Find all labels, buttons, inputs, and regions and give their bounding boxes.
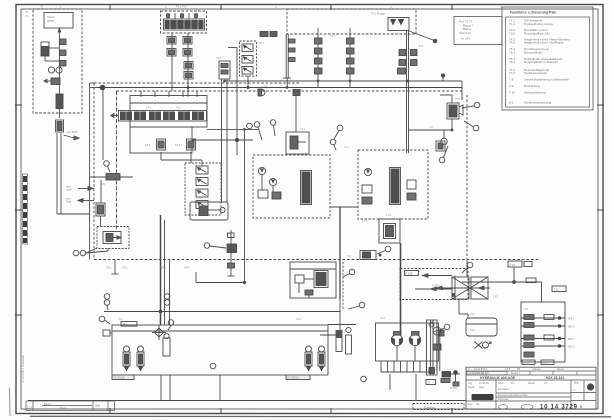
wire: cartridge box feed: [228, 48, 249, 89]
svg-text:74.5: 74.5: [100, 183, 105, 186]
svg-text:73.2: 73.2: [470, 313, 475, 316]
cylinder pair A2: [137, 346, 144, 371]
legend box top right: [502, 7, 593, 110]
bottom left strip text: [27, 403, 100, 410]
svg-text:Gez: Gez: [468, 403, 473, 406]
balloon ur2: [464, 121, 479, 131]
tag box right1: [508, 261, 532, 267]
wire: x467 foot: [466, 258, 468, 277]
svg-text:71.3: 71.3: [362, 220, 367, 223]
svg-text:71.2: 71.2: [509, 22, 515, 26]
pump1 cartridge dark: [301, 171, 312, 205]
wire: manifold right drop: [187, 33, 189, 97]
wire: bus y81: [224, 80, 462, 82]
wire: drop x462: [461, 81, 463, 100]
svg-text:10 14 3729 0 Schaltplan: 10 14 3729 0 Schaltplan: [21, 354, 25, 383]
arrow line r1: [422, 274, 452, 278]
svg-text:70: 70: [40, 5, 44, 9]
inlet arrow label 2: [66, 198, 94, 204]
manifold inner frame: [130, 127, 192, 153]
stacked valve s2: [196, 178, 208, 186]
oil tank box: [376, 323, 439, 361]
arrow line r2: [415, 284, 452, 291]
svg-text:1504: 1504: [184, 267, 190, 270]
manifold risers: [141, 91, 197, 97]
svg-text:74.2: 74.2: [509, 41, 515, 45]
control unit box in enclosure 71: [44, 13, 73, 29]
long dashed bus y259.5: [94, 259, 540, 261]
title block small field texts: [468, 382, 579, 407]
wire: x115 stub below bus: [112, 260, 119, 275]
balloon b-i: [104, 161, 110, 172]
svg-text:Masst: Masst: [528, 382, 535, 385]
wire: pair down-left from enclosure 71: [57, 133, 61, 214]
fitting blocks on drop: [60, 39, 67, 66]
svg-text:1:1: 1:1: [544, 382, 548, 385]
svg-text:74.2: 74.2: [176, 107, 181, 110]
wire: cross line y177: [90, 174, 133, 181]
page edge shadow corner: [9, 388, 12, 416]
solenoid coil c3: [184, 72, 193, 80]
svg-text:Stand 04: Stand 04: [459, 31, 471, 35]
dashed sub-box stacked valves: [185, 163, 221, 215]
svg-text:Bearb: Bearb: [468, 386, 475, 389]
svg-text:Nr 143: Nr 143: [461, 37, 470, 41]
accumulator in bank: [163, 333, 170, 356]
svg-text:71.9: 71.9: [262, 85, 267, 88]
wire: x296 pilot feed: [295, 96, 297, 133]
balloon tank top: [433, 324, 450, 332]
svg-text:Blatt: Blatt: [95, 405, 100, 408]
svg-text:Mayr: Mayr: [479, 386, 485, 389]
filter below enclosure 71: [56, 120, 64, 132]
distributor block right: [521, 302, 565, 362]
svg-text:77.2: 77.2: [509, 71, 515, 75]
PT box small parts: [295, 275, 314, 298]
tank pump motor 2: [409, 332, 420, 362]
tag box r1: [405, 271, 419, 276]
relief valve cluster upper right: [447, 103, 463, 119]
wire: x237 drop to pump box1: [235, 48, 238, 156]
wire: bank top extension: [328, 324, 356, 326]
svg-text:7.8: 7.8: [429, 126, 433, 129]
svg-text:76.1: 76.1: [118, 318, 123, 321]
svg-text:75.5: 75.5: [455, 98, 460, 101]
gauge under y130: [441, 130, 447, 145]
dashed enclosure 71 top-left: [33, 9, 82, 113]
title block row3 bold: [480, 376, 564, 380]
gauge cluster tag: [450, 386, 457, 390]
svg-text:7.9: 7.9: [509, 84, 514, 88]
balloon bank left2: [99, 316, 110, 324]
bank left port label strip: [112, 375, 134, 380]
tank pump motor 1: [391, 332, 402, 362]
company logo block: [472, 394, 494, 400]
balloon above pump box2 b: [330, 139, 336, 150]
svg-text:20 6: 20 6: [543, 361, 549, 365]
svg-text:74.4: 74.4: [175, 143, 181, 147]
wire: x343 drop: [342, 262, 344, 310]
wire: left control chain x103: [86, 88, 108, 253]
pump2 cartridge dark: [390, 168, 401, 205]
filter tag text: [493, 295, 499, 299]
distributor rows: [521, 315, 565, 358]
svg-text:75.3: 75.3: [196, 197, 201, 200]
svg-text:7.8: 7.8: [509, 78, 514, 82]
wire: pt drop x340 foot: [320, 299, 340, 335]
svg-text:7.1: 7.1: [25, 15, 29, 18]
label blocks left of enclosure 72: [260, 32, 277, 37]
valve on dashed bus: [360, 251, 381, 260]
manifold top labels: [176, 5, 187, 9]
svg-text:Blatt: Blatt: [574, 382, 579, 385]
wire: left feed column x89.6: [89, 83, 91, 260]
svg-text:Name: Name: [60, 407, 67, 410]
rounded pilot box: [190, 202, 228, 220]
cylinder pair B1: [305, 346, 312, 371]
component column x287: [283, 34, 295, 88]
ladder column x318: [315, 28, 323, 88]
dashed enclosure inner: [117, 91, 463, 230]
svg-text:74.1 74.2: 74.1 74.2: [176, 5, 187, 9]
solenoid valve 71a: [41, 42, 59, 61]
port tag left bank: [103, 330, 112, 336]
wire: manifold to stack: [161, 152, 202, 166]
balloon bank bottom1: [210, 363, 216, 369]
main valve spool row outline: [111, 111, 207, 122]
wire: bus y87.5: [96, 85, 462, 90]
dashed tag text: [424, 405, 436, 409]
breather tank rounded: [466, 318, 497, 336]
solenoid coil a2: [183, 37, 192, 45]
balloon pair above pump box2: [334, 125, 343, 139]
junction diamond: [152, 325, 166, 340]
cylinder pair A1: [123, 346, 130, 371]
pump2 small parts: [362, 180, 416, 204]
bank inner top line: [112, 330, 328, 332]
svg-text:Senkbremsventil: Senkbremsventil: [524, 71, 547, 75]
title block stamp ovals: [499, 405, 534, 409]
port tag texts under bus: [106, 267, 190, 270]
svg-text:206 1: 206 1: [568, 317, 575, 321]
wire: heavy suction line x400: [400, 243, 402, 334]
svg-text:Steuer-: Steuer-: [47, 15, 56, 19]
svg-text:H2X-02-101: H2X-02-101: [546, 376, 564, 380]
pilot valve p2: [175, 139, 196, 150]
svg-text:206 2: 206 2: [568, 325, 575, 329]
pump 1 circle a: [258, 167, 265, 174]
balloon above pump box1 b: [270, 120, 276, 136]
wire: manifold left drop: [171, 33, 173, 91]
balloon pair mid: [204, 243, 226, 249]
legend entries: [509, 19, 570, 105]
title block main area dividers: [466, 380, 596, 409]
left margin fold ruler: [23, 174, 28, 244]
small fitting on y130: [436, 141, 445, 151]
wire: cluster drop stub: [451, 119, 453, 130]
svg-text:Schlauchleitung: Schlauchleitung: [524, 91, 546, 95]
svg-text:71.4: 71.4: [386, 214, 391, 217]
distributor port labels: [568, 317, 575, 349]
bank tag label: [121, 322, 137, 327]
dashed enclosure 74 top-middle: [161, 11, 207, 33]
balloon PT left: [343, 269, 355, 277]
svg-text:X 20: X 20: [510, 263, 516, 267]
svg-text:B.1: B.1: [509, 101, 514, 105]
wire: bus y311.5: [104, 311, 340, 313]
wire: filter outlet elbow: [452, 294, 468, 318]
dashed box 75 with three cartridge valves: [240, 41, 257, 76]
balloon right of x467: [462, 262, 473, 273]
svg-text:12.4: 12.4: [27, 407, 32, 410]
title block: [466, 367, 596, 409]
svg-text:76.2: 76.2: [296, 318, 301, 321]
main control valve outline: [130, 96, 207, 128]
svg-text:Rohmass: Rohmass: [498, 398, 509, 401]
top border grid labels: [40, 5, 502, 10]
dashed box arrows right of tank: [400, 269, 468, 300]
svg-text:1503: 1503: [160, 267, 166, 270]
svg-text:P 210: P 210: [450, 386, 457, 390]
cylinder pair B2: [318, 346, 325, 371]
svg-text:Wegeventil el.bet. Vor/Rueck: Wegeventil el.bet. Vor/Rueck: [524, 41, 564, 45]
svg-text:10 14 3729: 10 14 3729: [540, 405, 578, 411]
dashed enclosure 72 top-right pump: [287, 9, 416, 34]
svg-text:73.2: 73.2: [509, 31, 515, 35]
fittings below bus: [258, 89, 300, 96]
wire: tank drop: [390, 374, 416, 401]
cartridge valve 75.2: [242, 56, 253, 64]
stacked valve s1: [196, 166, 208, 174]
tag small on y282: [526, 278, 536, 283]
svg-text:Wf: Wf: [517, 367, 520, 371]
gauge circle pair 71: [48, 67, 62, 73]
balloon bank top-left pair: [104, 294, 110, 310]
tag label right2: [552, 286, 566, 292]
svg-text:geraet: geraet: [47, 19, 55, 23]
svg-text:20 5: 20 5: [524, 361, 530, 365]
svg-text:Werkstoff: Werkstoff: [498, 388, 509, 391]
breather label below: [475, 342, 492, 349]
svg-text:7.9: 7.9: [347, 255, 351, 258]
gauge cluster left of title block: [441, 371, 460, 386]
top mini labels above manifold B: [163, 9, 200, 12]
dashed line right boundary x467: [466, 95, 468, 258]
stacked valve s4: [196, 201, 208, 209]
svg-text:71.2: 71.2: [380, 317, 385, 320]
wire: y140 link manifold to pump box1: [192, 139, 253, 141]
svg-text:75.4: 75.4: [216, 57, 221, 60]
wire: return line y288: [436, 286, 490, 290]
svg-text:72.1 Pumpe: 72.1 Pumpe: [371, 12, 386, 16]
fitting stack on pump line: [398, 50, 418, 75]
svg-text:Datum: Datum: [533, 367, 541, 371]
junction dot x443: [441, 74, 444, 81]
solenoid coil c2: [184, 62, 193, 70]
wire: drops to gauge cluster: [437, 330, 440, 371]
drawing number suffix: [580, 405, 582, 409]
pump1 inner parts: [258, 175, 281, 199]
manifold port stubs: [167, 13, 198, 19]
svg-text:207 2: 207 2: [568, 345, 575, 349]
svg-text:0: 0: [580, 405, 582, 409]
pump group box 2 dashed: [358, 150, 428, 219]
svg-text:7.10: 7.10: [509, 91, 515, 95]
inlet arrow label 1: [66, 186, 94, 192]
svg-text:Hydraulik-Oel pumpe: Hydraulik-Oel pumpe: [524, 22, 553, 26]
dashed tag bottom right: [413, 404, 464, 410]
left margin vertical text: [21, 354, 25, 383]
svg-text:Neigezylinder m.Daempf.: Neigezylinder m.Daempf.: [524, 60, 559, 64]
pump triangle 2: [399, 20, 404, 25]
leader to arrow dot: [409, 31, 437, 43]
wire: heavy line x340: [339, 207, 341, 299]
svg-text:73.1: 73.1: [300, 128, 305, 131]
wire: y129.4 link: [207, 129, 258, 131]
svg-text:74.1: 74.1: [146, 107, 151, 110]
solenoid manifold block: [164, 19, 205, 30]
flow control valve box PT: [290, 262, 336, 298]
wire: x89.6 top hook to bus: [90, 87, 96, 89]
pump triangle 1: [391, 20, 396, 25]
note box text: [459, 20, 474, 41]
balloon left-mid: [73, 248, 97, 256]
drawing number: [540, 405, 578, 411]
balloon y160: [439, 146, 448, 163]
tank side fittings: [439, 330, 445, 336]
riser x455: [454, 276, 456, 300]
svg-text:Aend 8124: Aend 8124: [474, 367, 487, 371]
balloon near bus valve: [377, 246, 391, 254]
svg-text:74.3: 74.3: [145, 143, 151, 147]
return filter column: [427, 320, 438, 375]
valve in small dashed box: [103, 232, 121, 244]
svg-text:Tag: Tag: [468, 382, 473, 385]
valve on line x231: [227, 233, 237, 253]
wire: x339 top link: [330, 206, 358, 208]
wire: y130 link: [408, 129, 453, 131]
svg-text:T 205: T 205: [432, 284, 439, 288]
svg-text:207 1: 207 1: [568, 337, 575, 341]
pump2 circle: [364, 168, 371, 175]
wire: line y282 to distributor: [462, 267, 542, 303]
svg-text:1501: 1501: [106, 267, 112, 270]
svg-text:Ersatz f.: Ersatz f.: [511, 372, 520, 375]
svg-text:73.2: 73.2: [493, 295, 499, 299]
balloon x343: [348, 302, 365, 309]
svg-text:75.2: 75.2: [509, 50, 515, 54]
bank right port label strip: [286, 375, 310, 380]
pilot box above pump1: [286, 132, 309, 154]
svg-text:72.3: 72.3: [418, 45, 423, 48]
wire: x231 drop: [228, 230, 235, 276]
svg-text:1502: 1502: [122, 267, 128, 270]
svg-text:77.1: 77.1: [296, 258, 301, 261]
svg-text:SV 20516: SV 20516: [113, 376, 125, 380]
cylinder bank box: [112, 325, 328, 375]
label arrow below enclosure 71: [64, 130, 80, 140]
svg-text:76.2: 76.2: [509, 60, 515, 64]
cartridge valve 75.1: [242, 44, 253, 52]
balloon bank mid pair: [164, 294, 170, 306]
solenoid coil b2: [183, 49, 192, 57]
legend title text: [510, 11, 556, 15]
svg-text:Benennung: Benennung: [498, 394, 511, 397]
title block revision row texts: [468, 367, 564, 371]
spool internal white lines: [126, 112, 198, 121]
wire: x244.5 drop: [244, 129, 246, 282]
svg-text:Gepr: Gepr: [498, 382, 504, 385]
svg-text:Ruecklauffilter 10u: Ruecklauffilter 10u: [524, 31, 550, 35]
svg-text:Funktions- u.Steuerung-Plan: Funktions- u.Steuerung-Plan: [510, 11, 556, 15]
pilot valve p1: [145, 139, 166, 150]
balloon pair above pump box1: [247, 122, 262, 140]
solenoid coil a1: [167, 37, 176, 45]
svg-text:Drosselventil: Drosselventil: [524, 50, 542, 54]
bottom left strip table: [26, 401, 115, 411]
pump group box 1 dashed: [253, 155, 330, 218]
wire: bottom return bus y400: [28, 400, 466, 402]
balloon bank mid: [168, 320, 174, 330]
svg-text:Tank: Tank: [66, 200, 72, 204]
stacked valve s3: [196, 189, 208, 197]
svg-text:Name: Name: [557, 367, 564, 371]
pump2 lower extension: [379, 219, 400, 243]
svg-text:Sonderausruestung: Sonderausruestung: [524, 101, 551, 105]
return filter assembly: [452, 277, 488, 299]
title block right circle mark: [587, 383, 594, 390]
distributor bottom labels: [522, 360, 554, 365]
svg-text:72.1: 72.1: [330, 35, 335, 38]
svg-text:12.04.84: 12.04.84: [479, 382, 489, 385]
svg-text:720: 720: [524, 308, 529, 311]
PT box cartridge: [314, 271, 328, 288]
svg-text:P 205: P 205: [406, 271, 413, 275]
svg-text:T 20: T 20: [554, 287, 560, 291]
ladder column x350: [347, 28, 355, 88]
svg-text:75.1: 75.1: [259, 42, 264, 45]
svg-text:Lenk: Lenk: [66, 188, 72, 192]
svg-text:HYDRAULIK ANLAGE: HYDRAULIK ANLAGE: [480, 376, 516, 380]
pump unit label: [371, 12, 386, 16]
wire: y282.5 run: [196, 272, 246, 284]
wire: cluster top hook: [440, 95, 452, 103]
svg-text:71.1: 71.1: [470, 328, 476, 332]
balloon ur1: [462, 102, 480, 108]
small tag box far left: [426, 380, 436, 385]
wire: left pair bottom joint: [57, 213, 90, 215]
title block row2: [467, 371, 507, 374]
wire: double pressure line from pump: [407, 31, 409, 154]
wire: left drops into bank: [159, 215, 169, 325]
component column x221: [219, 61, 230, 202]
priority valve left column: [96, 203, 105, 216]
svg-text:72.2: 72.2: [344, 146, 349, 149]
solenoid coil b1: [167, 49, 176, 57]
pump unit 72 box: [388, 18, 409, 31]
wire: bank drops to return: [161, 375, 220, 401]
cartridge valve 75.3: [242, 67, 253, 75]
svg-text:12.4: 12.4: [505, 367, 511, 371]
check valve row 71: [44, 78, 60, 85]
accumulator group left of tank: [336, 327, 352, 354]
note box top right: [454, 17, 502, 45]
pump 1 circle b: [269, 178, 276, 185]
svg-text:Datum: Datum: [44, 403, 51, 406]
page edge shadow bottom: [30, 415, 611, 418]
gauge small left of tank: [433, 327, 441, 350]
wire: enclosure 71 main drop: [58, 28, 61, 118]
